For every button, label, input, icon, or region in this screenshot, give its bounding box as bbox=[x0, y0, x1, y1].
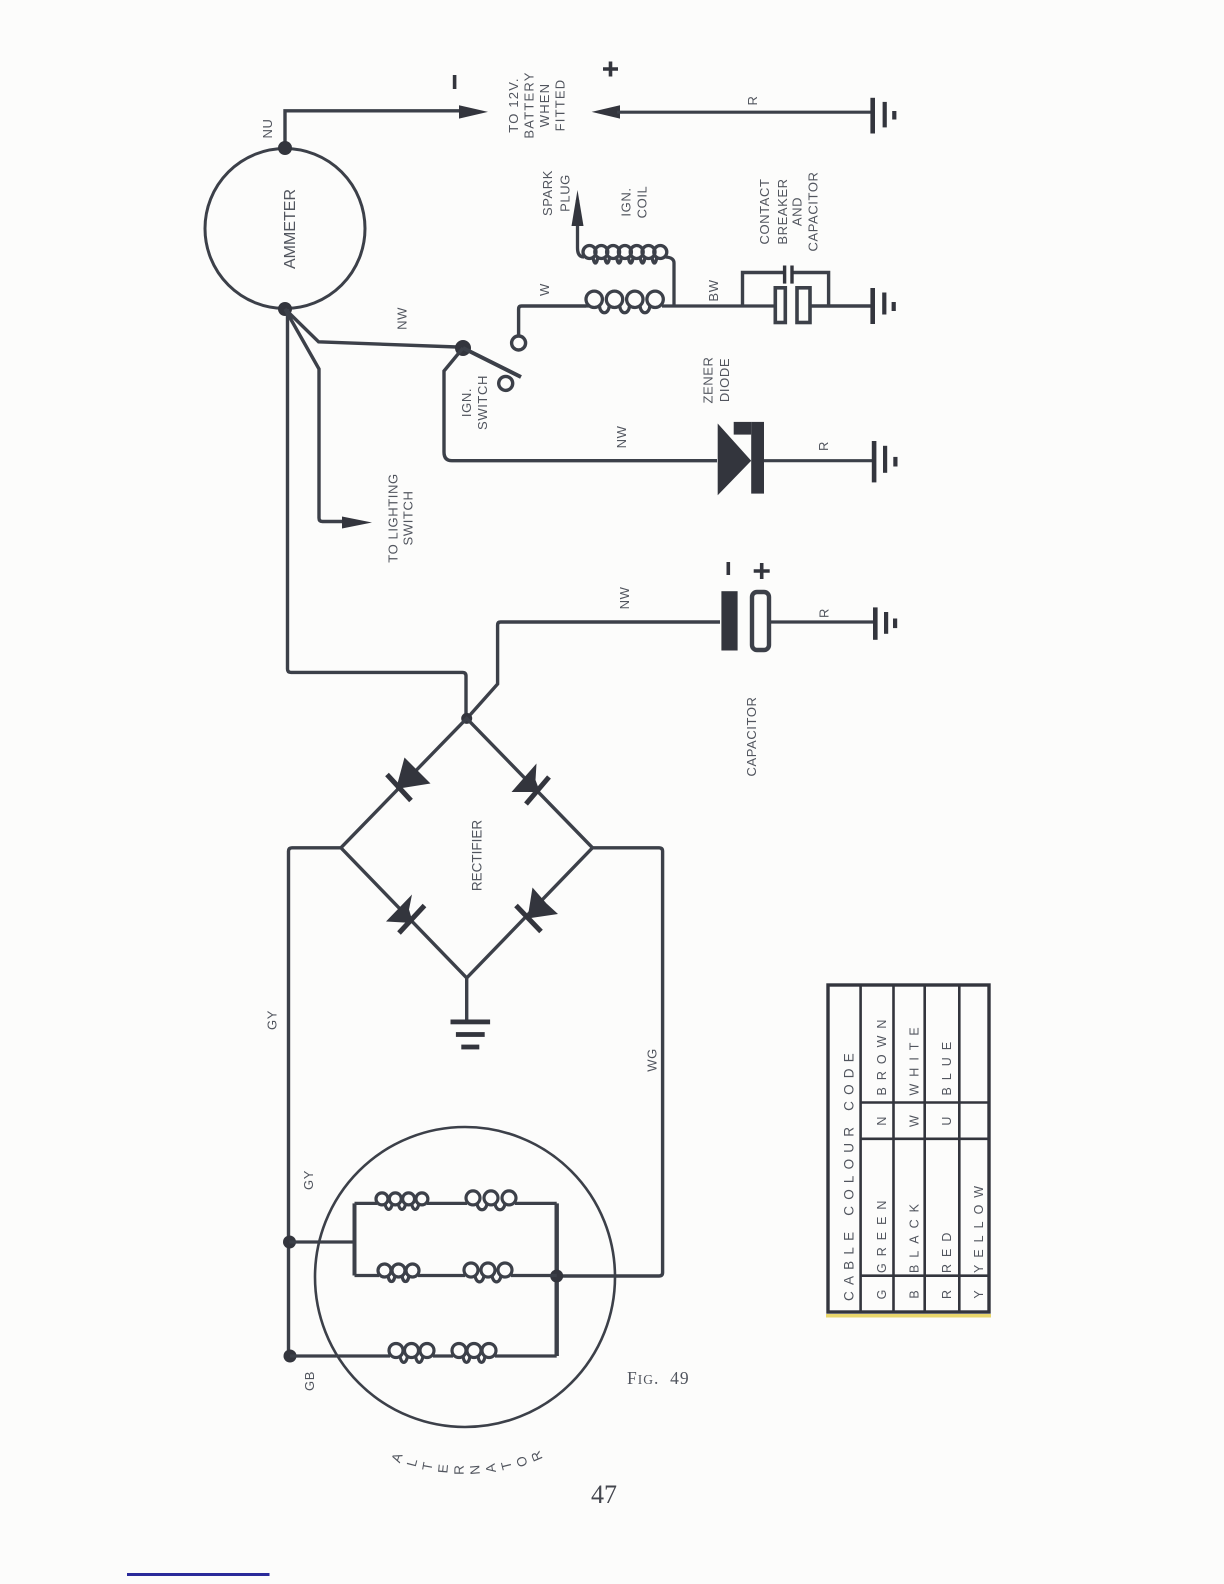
svg-text:GY: GY bbox=[301, 1170, 316, 1190]
svg-text:WHEN: WHEN bbox=[537, 83, 552, 128]
svg-text:A: A bbox=[388, 1451, 405, 1464]
svg-text:CABLE COLOUR CODE: CABLE COLOUR CODE bbox=[842, 1047, 857, 1301]
wire: coil secondary down to primary line bbox=[666, 257, 675, 306]
wire WG: rectifier right arm to alternator centre tap bbox=[557, 848, 663, 1276]
scan artifact line bbox=[127, 1573, 270, 1576]
svg-text:YELLOW: YELLOW bbox=[972, 1179, 986, 1273]
svg-text:BROWN: BROWN bbox=[875, 1013, 889, 1096]
svg-text:BLACK: BLACK bbox=[908, 1197, 922, 1273]
wire: battery positive to earth bbox=[617, 111, 873, 114]
battery feed arrowhead (negative lead) bbox=[459, 105, 488, 118]
ground: battery positive earth bbox=[870, 98, 875, 134]
node GY junction bbox=[283, 1236, 296, 1249]
alternator housing bbox=[315, 1127, 615, 1427]
svg-text:R: R bbox=[745, 96, 760, 106]
ignition switch lever bbox=[463, 348, 521, 377]
node: rectifier top bbox=[461, 713, 472, 724]
svg-text:ZENER: ZENER bbox=[701, 356, 716, 403]
node: ammeter top terminal bbox=[278, 141, 292, 155]
node: centre tap bbox=[550, 1270, 563, 1283]
svg-text:DIODE: DIODE bbox=[717, 358, 732, 402]
svg-text:COIL: COIL bbox=[635, 186, 650, 219]
wire: ammeter to lighting switch bbox=[285, 309, 348, 522]
svg-text:NW: NW bbox=[394, 307, 409, 330]
diode D2 (top-right arm) bbox=[512, 764, 541, 793]
svg-text:GREEN: GREEN bbox=[875, 1194, 889, 1273]
table yellow scan artifact bbox=[826, 1314, 991, 1318]
svg-text:CAPACITOR: CAPACITOR bbox=[806, 171, 821, 251]
wire NW: ignition switch to zener bbox=[444, 348, 717, 461]
svg-text:BATTERY: BATTERY bbox=[522, 71, 537, 138]
contact breaker point 2 bbox=[797, 288, 810, 323]
svg-text:B: B bbox=[908, 1289, 922, 1298]
ignition switch input node bbox=[455, 340, 471, 356]
plus mark bbox=[754, 563, 770, 579]
svg-text:FIG. 49: FIG. 49 bbox=[627, 1368, 690, 1388]
svg-text:A: A bbox=[483, 1463, 499, 1474]
svg-text:E: E bbox=[435, 1464, 451, 1474]
svg-text:NW: NW bbox=[614, 425, 629, 448]
svg-text:T: T bbox=[498, 1460, 515, 1472]
wire: capacitor to earth bbox=[769, 620, 875, 623]
rectifier bridge diamond bbox=[341, 718, 593, 978]
wire GY: rectifier left arm to alternator bbox=[289, 848, 341, 1356]
svg-text:R: R bbox=[816, 441, 831, 451]
spark plug arrowhead bbox=[572, 190, 584, 226]
svg-text:SWITCH: SWITCH bbox=[400, 491, 415, 546]
capacitor positive plate bbox=[752, 592, 769, 650]
wire: ammeter line down to rectifier bbox=[288, 309, 467, 718]
node: ammeter bottom terminal bbox=[278, 302, 292, 316]
svg-text:AMMETER: AMMETER bbox=[282, 189, 299, 269]
svg-text:AND: AND bbox=[790, 197, 805, 226]
ignition coil secondary winding bbox=[578, 200, 585, 257]
svg-text:BW: BW bbox=[706, 279, 721, 301]
wire W: switch terminal to coil primary bbox=[519, 306, 586, 336]
svg-text:R: R bbox=[452, 1465, 467, 1475]
stator left bus bar bbox=[353, 1203, 357, 1275]
svg-text:WHITE: WHITE bbox=[908, 1020, 922, 1095]
capacitor branch wire bbox=[743, 273, 784, 307]
wire: ammeter top to battery arrow bbox=[285, 111, 461, 148]
svg-text:SPARK: SPARK bbox=[540, 170, 555, 216]
svg-text:IGN.: IGN. bbox=[459, 388, 474, 417]
svg-text:RECTIFIER: RECTIFIER bbox=[470, 820, 485, 892]
wire: rectifier bottom to earth bbox=[465, 978, 468, 1020]
battery positive arrowhead bbox=[592, 105, 620, 118]
wire: zener to earth bbox=[764, 459, 874, 462]
ground: capacitor earth bbox=[873, 607, 878, 639]
svg-text:SWITCH: SWITCH bbox=[475, 375, 490, 430]
svg-text:R: R bbox=[940, 1289, 954, 1299]
svg-text:NU: NU bbox=[260, 119, 275, 139]
zener diode bbox=[718, 424, 752, 496]
wire: contact breaker to earth bbox=[810, 304, 873, 307]
svg-text:R: R bbox=[528, 1449, 546, 1464]
svg-text:PLUG: PLUG bbox=[558, 174, 573, 212]
svg-text:IGN.: IGN. bbox=[619, 187, 634, 216]
svg-text:WG: WG bbox=[645, 1048, 660, 1072]
node GB junction bbox=[284, 1350, 297, 1363]
svg-text:U: U bbox=[940, 1116, 954, 1126]
svg-text:FITTED: FITTED bbox=[553, 79, 568, 132]
svg-text:R: R bbox=[817, 608, 832, 618]
cable colour code table bbox=[828, 985, 989, 1312]
ground: contact breaker earth bbox=[870, 288, 875, 324]
svg-text:W: W bbox=[908, 1114, 922, 1127]
contact breaker point 1 bbox=[775, 288, 785, 323]
svg-text:TO LIGHTING: TO LIGHTING bbox=[386, 473, 401, 562]
capacitor negative plate bbox=[721, 591, 737, 650]
capacitor plates bbox=[783, 266, 786, 284]
svg-text:TO 12V.: TO 12V. bbox=[506, 77, 521, 132]
svg-text:Y: Y bbox=[972, 1289, 986, 1298]
wire: GY junction to stator bbox=[290, 1240, 355, 1243]
diode D1 (top-left arm) bbox=[396, 758, 431, 790]
ignition coil feed terminal bbox=[512, 336, 526, 350]
svg-text:L: L bbox=[404, 1457, 421, 1469]
lighting switch arrowhead bbox=[342, 517, 372, 529]
ignition coil primary winding bbox=[586, 304, 775, 307]
stator right bus bar bbox=[555, 1203, 559, 1356]
plus polarity mark bbox=[603, 62, 618, 77]
svg-text:GY: GY bbox=[265, 1010, 280, 1030]
wire NW: ammeter to ignition switch bbox=[285, 309, 457, 347]
svg-text:CAPACITOR: CAPACITOR bbox=[744, 696, 759, 776]
stator coil row 1 bbox=[355, 1202, 557, 1205]
wire NW: rectifier to capacitor bbox=[467, 622, 720, 718]
svg-text:CONTACT: CONTACT bbox=[757, 178, 772, 244]
svg-text:GB: GB bbox=[302, 1371, 317, 1391]
svg-text:N: N bbox=[875, 1116, 889, 1126]
ground: zener earth bbox=[872, 441, 877, 482]
svg-text:47: 47 bbox=[591, 1480, 617, 1509]
minus polarity mark bbox=[453, 75, 457, 89]
svg-text:BLUE: BLUE bbox=[940, 1035, 954, 1096]
minus mark bbox=[727, 562, 731, 575]
ammeter bbox=[205, 149, 365, 309]
stator coil row 2 bbox=[355, 1274, 557, 1277]
svg-text:N: N bbox=[467, 1464, 483, 1475]
ignition switch open terminal bbox=[499, 376, 513, 390]
diode D3 (bottom-left arm) bbox=[386, 895, 413, 924]
svg-text:W: W bbox=[537, 283, 552, 296]
svg-text:T: T bbox=[419, 1461, 435, 1472]
svg-text:BREAKER: BREAKER bbox=[775, 178, 790, 244]
ground: rectifier earth bbox=[451, 1020, 491, 1025]
svg-text:G: G bbox=[875, 1289, 889, 1300]
svg-text:NW: NW bbox=[617, 586, 632, 609]
stator coil row 3 bbox=[290, 1354, 557, 1357]
svg-text:RED: RED bbox=[940, 1226, 954, 1273]
diode D4 (bottom-right arm) bbox=[528, 888, 559, 919]
